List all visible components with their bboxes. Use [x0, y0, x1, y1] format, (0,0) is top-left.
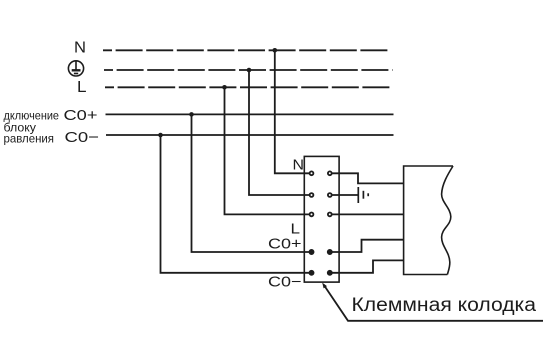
svg-text:N: N — [293, 157, 305, 174]
wire C0- bus — [106, 134, 394, 136]
terminal 5 right (C0-) — [328, 271, 333, 276]
wire C0+ drop — [192, 114, 312, 252]
wire L drop — [225, 87, 312, 214]
wire PE to ground — [332, 194, 358, 196]
svg-text:C0+: C0+ — [268, 235, 302, 252]
svg-text:Клеммная колодка: Клеммная колодка — [352, 295, 537, 316]
wire C0+ to box — [330, 240, 404, 252]
wire L bus (dashed) — [105, 86, 393, 88]
svg-text:C0+: C0+ — [64, 107, 98, 124]
ground symbol (right) — [358, 187, 368, 203]
svg-text:N: N — [74, 39, 86, 56]
junction dot PE — [247, 68, 252, 73]
cable box (broken-edge rectangle) — [404, 166, 453, 275]
terminal 4 right (C0+) — [328, 250, 333, 255]
wire N drop — [275, 50, 312, 173]
junction dot N — [273, 48, 278, 53]
svg-text:L: L — [77, 79, 87, 96]
terminal 2 left (PE) — [310, 193, 314, 197]
terminal block outline — [304, 156, 339, 282]
junction dot C0+ — [189, 112, 194, 117]
terminal 3 right (L) — [328, 213, 332, 217]
svg-text:равления: равления — [4, 132, 55, 145]
wire PE drop — [249, 70, 312, 195]
terminal 4 left (C0+) — [309, 250, 314, 255]
terminal 5 left (C0-) — [309, 271, 314, 276]
terminal 3 left (L) — [310, 213, 314, 217]
wire C0- drop — [161, 135, 312, 273]
wire N bus (dashed) — [103, 49, 388, 51]
svg-text:C0−: C0− — [268, 274, 302, 291]
junction dot L — [222, 85, 227, 90]
wire PE bus (dashed) — [104, 69, 393, 71]
leader arrowhead (terminal block callout) — [322, 283, 327, 289]
wire C0- to box — [330, 260, 404, 272]
terminal 2 right (PE) — [328, 193, 332, 197]
cable box wavy break edge — [442, 166, 453, 275]
wire L to box — [332, 213, 403, 215]
terminal 1 right (N) — [328, 171, 332, 175]
wire N to box — [332, 173, 403, 183]
terminal 1 left (N) — [310, 171, 314, 175]
earth symbol PE (left) — [68, 61, 83, 76]
svg-text:C0−: C0− — [65, 129, 100, 146]
junction dot C0- — [158, 133, 163, 138]
wire C0+ bus — [106, 113, 394, 115]
leader line (terminal block callout) — [324, 285, 543, 321]
